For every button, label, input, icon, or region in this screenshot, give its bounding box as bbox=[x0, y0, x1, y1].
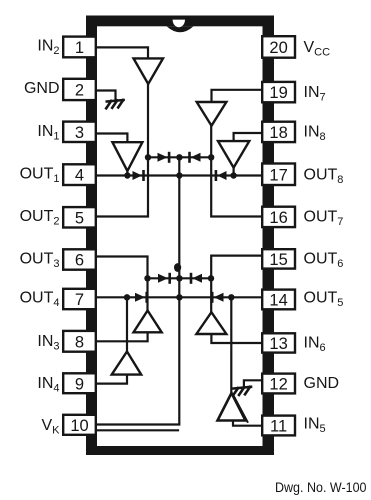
svg-text:9: 9 bbox=[75, 375, 84, 393]
diode D6 (row3 right, OUT6 to VK bus) bbox=[190, 273, 202, 284]
ground symbol (pin 12) bbox=[233, 387, 251, 396]
wire pin18 IN8 to driver A8 input bbox=[234, 133, 263, 141]
svg-text:19: 19 bbox=[269, 84, 287, 102]
pin 7 box bbox=[63, 289, 96, 309]
junction row2 VK bus bbox=[176, 172, 182, 178]
junction row1 OUT2 line bbox=[145, 154, 151, 160]
junction VK bus blob bbox=[174, 263, 181, 272]
svg-text:2: 2 bbox=[75, 82, 84, 100]
pin 3 box bbox=[63, 122, 96, 142]
svg-text:1: 1 bbox=[75, 39, 84, 57]
svg-text:8: 8 bbox=[75, 333, 84, 351]
wire pin1 IN2 to driver A2 input bbox=[97, 47, 149, 58]
wire driver A1 output stub bbox=[126, 171, 128, 176]
junction row1 VK bus bbox=[176, 154, 182, 160]
pin 17 box bbox=[262, 164, 295, 186]
svg-text:6: 6 bbox=[75, 252, 84, 270]
pin 16 box bbox=[262, 207, 295, 227]
wire pin13 IN6 to driver A6 input bbox=[211, 334, 262, 343]
svg-text:3: 3 bbox=[75, 124, 84, 142]
junction row4 VK bus bbox=[176, 294, 182, 300]
pin 11 box bbox=[262, 416, 295, 436]
diode D1 (row2 left, OUT1 to VK bus) bbox=[133, 170, 145, 181]
svg-text:14: 14 bbox=[269, 292, 287, 310]
ground symbol (pin 2) bbox=[106, 100, 123, 108]
wire pin5 OUT2 up to driver A2 output bbox=[97, 84, 149, 217]
wire pin11 IN5 to driver A5 input bbox=[233, 421, 263, 426]
wire pin16 OUT7 up to driver A7 output bbox=[211, 126, 262, 217]
svg-text:20: 20 bbox=[269, 39, 287, 57]
pin 15 box bbox=[262, 249, 295, 268]
driver A5 double-struck right edge bbox=[234, 397, 248, 422]
svg-text:5: 5 bbox=[75, 209, 84, 227]
pin 8 box bbox=[63, 331, 96, 352]
driver A6 (IN6, pin13) bbox=[196, 312, 226, 334]
wire pin19 IN7 to driver A7 input bbox=[212, 90, 263, 102]
junction row4 driver A4 output bbox=[124, 294, 130, 300]
svg-text:12: 12 bbox=[269, 376, 287, 394]
junction row3 OUT6 line bbox=[208, 275, 214, 281]
wire OUT4 row (pin7 to pin14 OUT5 line, diode row 4) bbox=[97, 296, 263, 298]
diode D3 (row3 left, OUT3 to VK bus) bbox=[158, 273, 171, 284]
svg-text:15: 15 bbox=[269, 251, 287, 269]
diode D7 (row1 right, cathode to VK bus) bbox=[188, 152, 200, 163]
diode D2 (row1 left, cathode to VK bus) bbox=[158, 152, 171, 163]
diode D4 (row4 left, OUT4 to VK bus) bbox=[135, 292, 148, 303]
svg-text:11: 11 bbox=[270, 418, 287, 436]
svg-text:17: 17 bbox=[269, 166, 287, 184]
pin 4 box bbox=[63, 164, 96, 185]
pin 2 box bbox=[63, 79, 96, 100]
wire diode row 3 (OUT3 line to OUT6 line) bbox=[148, 277, 212, 279]
svg-text:10: 10 bbox=[70, 417, 88, 435]
driver A3 (IN3, pin8) bbox=[134, 311, 162, 333]
wire pin6 OUT3 down to driver A3 output bbox=[97, 257, 148, 311]
wire pin3 IN1 to driver A1 input bbox=[97, 134, 128, 143]
wire pin10 VK to common cathode bus bbox=[97, 157, 180, 424]
wire pin9 IN4 to driver A4 input bbox=[97, 375, 128, 384]
pin 6 box bbox=[63, 249, 96, 269]
wire pin15 OUT6 down to driver A6 output bbox=[211, 256, 262, 313]
svg-text:7: 7 bbox=[75, 291, 84, 309]
driver A8 (IN8, pin18) bbox=[218, 141, 249, 168]
wire driver A4 output to OUT4 row bbox=[126, 297, 128, 351]
driver A2 (IN2, pin1) bbox=[134, 58, 164, 84]
IC package outline (20-pin DIP body) bbox=[86, 16, 274, 456]
wire pin10 VK lower stub bbox=[97, 429, 179, 431]
driver A1 (IN1, pin3) bbox=[112, 142, 142, 171]
diode D8 (row2 right, OUT8 to VK bus) bbox=[215, 170, 227, 181]
pin 14 box bbox=[262, 290, 295, 310]
wire pin2 GND to chassis ground bbox=[97, 91, 116, 101]
svg-text:Dwg. No. W-100: Dwg. No. W-100 bbox=[275, 479, 367, 495]
wire pin8 IN3 to driver A3 input bbox=[97, 332, 148, 341]
pin 18 box bbox=[262, 122, 295, 142]
svg-text:18: 18 bbox=[269, 124, 287, 142]
driver A4 (IN4, pin9) bbox=[112, 352, 142, 375]
pin 13 box bbox=[262, 333, 295, 352]
pin 19 box bbox=[262, 82, 295, 102]
pin 9 box bbox=[63, 373, 96, 393]
wire OUT1 row (pin4 to pin17 OUT8 line, diode row 2) bbox=[97, 174, 263, 176]
junction row3 VK bus bbox=[176, 275, 182, 281]
pin 1 box bbox=[63, 37, 96, 58]
diode D5 (row4 right, OUT5 to VK bus) bbox=[211, 292, 224, 303]
wire driver A8 output stub bbox=[233, 168, 235, 176]
svg-text:GND: GND bbox=[304, 375, 340, 392]
wire diode row 1 (OUT2 line to OUT7 line) bbox=[148, 156, 211, 158]
driver A7 (IN7, pin19) bbox=[197, 102, 227, 126]
wire OUT5 line down to driver A5 output bbox=[230, 297, 232, 392]
driver A5 (IN5, pin11) bbox=[218, 393, 246, 421]
wire pin12 GND to chassis ground bbox=[244, 380, 263, 386]
junction row4 OUT5 line bbox=[228, 294, 234, 300]
svg-text:GND: GND bbox=[24, 80, 60, 97]
junction row2 driver A1 output bbox=[124, 172, 130, 178]
pin 20 box bbox=[262, 36, 295, 58]
pin 12 box bbox=[262, 374, 295, 394]
junction row1 OUT7 line bbox=[208, 154, 214, 160]
svg-text:16: 16 bbox=[269, 209, 287, 227]
junction row3 OUT3 line bbox=[144, 275, 150, 281]
junction row2 driver A8 output bbox=[230, 172, 236, 178]
pin 10 box bbox=[63, 415, 96, 435]
svg-text:13: 13 bbox=[269, 335, 287, 353]
pin 5 box bbox=[63, 207, 96, 227]
package index notch at top center bbox=[167, 26, 194, 32]
svg-text:4: 4 bbox=[75, 167, 84, 185]
